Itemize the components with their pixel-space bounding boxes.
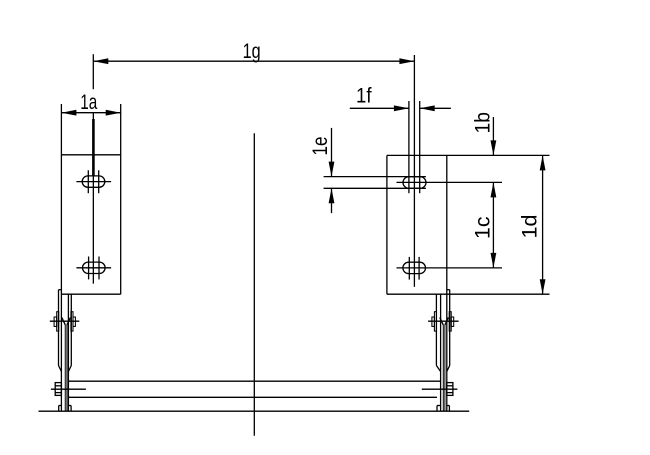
threaded rod double line bbox=[64, 325, 66, 411]
svg-text:1c: 1c bbox=[471, 216, 495, 239]
ground line bbox=[39, 410, 470, 412]
dimension 1c bbox=[471, 182, 497, 268]
right plate bbox=[387, 155, 550, 294]
svg-text:1e: 1e bbox=[308, 137, 332, 156]
hook outer line B bbox=[58, 290, 60, 366]
svg-text:1d: 1d bbox=[518, 215, 542, 239]
threaded rod double line bbox=[442, 325, 444, 411]
left rod (threaded) bbox=[92, 119, 95, 176]
dimension 1a bbox=[61, 90, 120, 116]
right rod centerline bbox=[413, 55, 415, 287]
outboard edge line A bbox=[60, 294, 62, 411]
lock nut bbox=[54, 317, 57, 326]
svg-text:1f: 1f bbox=[356, 84, 372, 108]
inboard inner line C bbox=[67, 294, 69, 411]
right hanger bracket bbox=[422, 290, 459, 412]
left plate slot hole 2 bbox=[76, 257, 111, 280]
right plate slot hole 2 bbox=[397, 257, 503, 280]
dimension 1f bbox=[350, 84, 451, 112]
inboard outer line D bbox=[70, 294, 72, 365]
svg-text:1g: 1g bbox=[243, 39, 261, 63]
dimension 1e bbox=[308, 128, 334, 213]
outboard edge line A bbox=[446, 294, 448, 411]
svg-text:1a: 1a bbox=[80, 90, 97, 114]
right plate slot hole 1 bbox=[397, 177, 503, 189]
dimension 1b bbox=[471, 112, 497, 155]
dimension 1d bbox=[518, 155, 546, 294]
left plate bbox=[61, 104, 120, 294]
left plate hole centerline vertical bbox=[92, 113, 94, 284]
svg-text:1b: 1b bbox=[471, 112, 495, 134]
inboard outer line D bbox=[435, 294, 437, 365]
dimension 1g bbox=[93, 39, 414, 89]
lower clamp bolt bbox=[447, 383, 453, 396]
slot edge extension lines (1e) bbox=[324, 176, 426, 178]
centerline bbox=[253, 133, 255, 435]
Y arms bbox=[440, 318, 444, 326]
rail tube bbox=[68, 381, 440, 397]
left hanger bracket bbox=[50, 290, 86, 412]
Y arms bbox=[62, 318, 66, 326]
lower clamp bolt bbox=[55, 383, 61, 396]
right rod edges bbox=[408, 101, 410, 193]
inboard inner line C bbox=[440, 294, 442, 411]
hook outer line B bbox=[449, 290, 451, 366]
feet bbox=[436, 406, 438, 412]
left plate slot hole 1 bbox=[76, 170, 111, 193]
feet bbox=[58, 406, 60, 412]
lock nut bbox=[432, 317, 435, 326]
